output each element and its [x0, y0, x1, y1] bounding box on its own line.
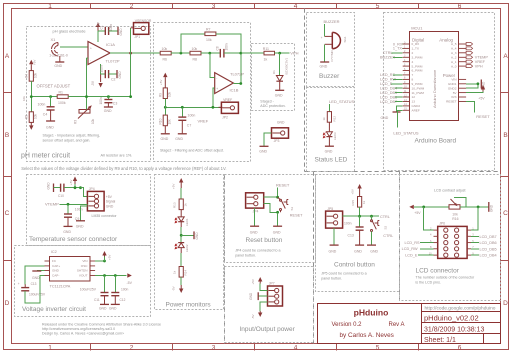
- svg-text:LCD_DB7: LCD_DB7: [480, 235, 497, 239]
- switch S1: [278, 197, 304, 217]
- wire LED2 to R14: [180, 248, 182, 253]
- JP6 right stubs: [467, 230, 471, 255]
- svg-text:C: C: [503, 210, 508, 217]
- svg-text:2: 2: [130, 3, 134, 10]
- svg-text:LCD_DB4: LCD_DB4: [380, 87, 397, 91]
- wire buzzer to gnd: [324, 44, 326, 61]
- svg-text:1k: 1k: [264, 57, 268, 61]
- svg-text:Released under the Creative Co: Released under the Creative Commons Attr…: [42, 322, 161, 326]
- svg-text:All resistor are 1%.: All resistor are 1%.: [101, 154, 133, 158]
- svg-text:100n: 100n: [75, 208, 83, 212]
- svg-text:Design by. Carlos A. Neves <c: Design by. Carlos A. Neves <caneves@gmai…: [42, 332, 124, 336]
- svg-text:JP5 could be connected to a: JP5 could be connected to a: [321, 272, 366, 276]
- ground lcd right: [489, 202, 494, 212]
- svg-text:Signal: Signal: [106, 200, 116, 204]
- +5V arrow R9: [159, 73, 168, 88]
- svg-text:S2: S2: [384, 225, 388, 229]
- svg-text:Buzzer: Buzzer: [319, 73, 340, 80]
- wire R11 to VPH: [275, 52, 290, 54]
- wire R15 to ctrl rail: [359, 207, 361, 216]
- svg-text:Input/Output power: Input/Output power: [240, 326, 296, 333]
- svg-text:GND: GND: [161, 137, 169, 141]
- svg-text:4: 4: [430, 233, 432, 237]
- wire R13 to LED1: [180, 210, 182, 217]
- svg-text:+: +: [321, 36, 323, 40]
- svg-text:Voltage inverter circuit: Voltage inverter circuit: [22, 306, 86, 313]
- capacitor C1: [98, 24, 118, 35]
- svg-text:+: +: [18, 282, 20, 286]
- svg-text:C13: C13: [348, 233, 354, 237]
- -5V arrow right: [127, 273, 133, 285]
- wire IC1B minus input: [210, 53, 215, 77]
- wire IC1B plus input: [213, 88, 215, 107]
- wire LED3 to gnd: [328, 137, 330, 146]
- svg-text:GND: GND: [277, 121, 285, 125]
- capacitor C8: [215, 43, 241, 57]
- connector JP6: [438, 222, 467, 259]
- svg-text:R5: R5: [25, 115, 29, 119]
- svg-text:GND: GND: [249, 292, 253, 300]
- dashed box stage3: [252, 44, 295, 111]
- MCU1 left pin names: [412, 42, 425, 112]
- net labels LCD right: [480, 235, 497, 258]
- svg-text:4: 4: [294, 3, 298, 10]
- svg-text:R6: R6: [163, 58, 168, 62]
- IC2 pin names: [52, 259, 60, 277]
- capacitor C14: [344, 216, 364, 253]
- ground left of C10: [47, 182, 54, 192]
- capacitor C7: [175, 107, 195, 141]
- wire JP4 pin3 to ground: [81, 206, 88, 221]
- svg-text:IC1A: IC1A: [106, 42, 115, 47]
- MCU1 left pin stubs: [403, 44, 410, 110]
- svg-text:Arduino Duemilanove: Arduino Duemilanove: [432, 69, 437, 108]
- svg-text:5: 5: [376, 345, 380, 352]
- LED LED3: [323, 132, 337, 140]
- svg-text:JP4 could be connected to a: JP4 could be connected to a: [235, 249, 280, 253]
- trimmer R16: [449, 198, 489, 221]
- svg-text:-5V: -5V: [251, 314, 255, 319]
- svg-text:7: 7: [412, 73, 414, 77]
- svg-text:9_PWM: 9_PWM: [412, 82, 423, 86]
- svg-text:Version 0.2: Version 0.2: [332, 322, 363, 328]
- frame column ticks bottom: [91, 344, 419, 351]
- svg-text:GND: GND: [63, 230, 71, 234]
- svg-text:A: A: [503, 53, 508, 60]
- svg-text:BZX55C5V1: BZX55C5V1: [285, 57, 289, 74]
- svg-text:R4: R4: [25, 74, 29, 78]
- svg-text:LCD_RW: LCD_RW: [402, 247, 418, 251]
- frame column numbers top: [48, 3, 462, 10]
- svg-text:LED3: LED3: [333, 132, 337, 140]
- svg-text:GND: GND: [118, 71, 122, 79]
- svg-text:1k: 1k: [362, 200, 366, 204]
- svg-text:LED1: LED1: [185, 218, 189, 226]
- connector X1: [49, 37, 68, 58]
- svg-text:The number outside of the conn: The number outside of the connector: [416, 276, 476, 280]
- svg-text:100uF/25V: 100uF/25V: [29, 293, 46, 297]
- svg-text:VREF: VREF: [223, 98, 232, 102]
- svg-text:3V3: 3V3: [451, 95, 457, 99]
- svg-text:GND: GND: [32, 276, 40, 280]
- svg-text:11_PWM: 11_PWM: [412, 91, 425, 95]
- svg-text:JP5: JP5: [327, 207, 333, 211]
- svg-text:LED_STATUS: LED_STATUS: [329, 99, 355, 104]
- svg-text:http://code.google.com/p/phdui: http://code.google.com/p/phduino: [425, 305, 496, 311]
- svg-text:LCD_RS: LCD_RS: [405, 241, 420, 245]
- ground mid power monitors: [181, 231, 199, 239]
- svg-text:JP3: JP3: [274, 139, 280, 143]
- svg-text:Control button: Control button: [334, 261, 375, 268]
- svg-text:LCD_DB6: LCD_DB6: [480, 241, 497, 245]
- section divider vertical control/LCD: [399, 172, 401, 301]
- frame column numbers bottom: [48, 345, 462, 352]
- svg-text:100uF/25V: 100uF/25V: [80, 287, 97, 291]
- wire X1 to IC1A: [60, 46, 88, 48]
- frame row ticks right: [501, 93, 509, 261]
- svg-text:Sheet: 1/1: Sheet: 1/1: [424, 337, 456, 344]
- svg-text:JP4: JP4: [253, 210, 259, 214]
- svg-text:JP1: JP1: [134, 35, 140, 39]
- svg-text:GND: GND: [370, 250, 378, 254]
- LED LED2 reversed: [175, 243, 189, 252]
- svg-text:+5V: +5V: [350, 189, 354, 194]
- svg-text:JP6: JP6: [439, 222, 445, 226]
- svg-text:Select the values of the volta: Select the values of the voltage divider…: [21, 166, 226, 171]
- analog net flag arrows: [466, 43, 473, 68]
- svg-text:LCD_DB7: LCD_DB7: [380, 100, 397, 104]
- svg-text:+5V: +5V: [478, 97, 485, 101]
- svg-text:A_4: A_4: [451, 47, 457, 51]
- svg-text:CTRL: CTRL: [380, 215, 390, 219]
- svg-text:is the LCD pins.: is the LCD pins.: [416, 280, 441, 284]
- svg-text:RESET: RESET: [276, 183, 290, 188]
- frame row ticks left: [3, 93, 11, 261]
- dashed box temperature sensor: [27, 175, 151, 246]
- svg-text:LCD_DB6: LCD_DB6: [380, 95, 397, 99]
- svg-text:panel button.: panel button.: [235, 253, 256, 257]
- connector JP4: [87, 187, 115, 211]
- ground under switch S2: [367, 245, 379, 254]
- connector JP4 reset: [246, 193, 264, 214]
- svg-text:Arduino Board: Arduino Board: [415, 137, 457, 144]
- svg-text:A_0: A_0: [451, 64, 457, 68]
- svg-text:6: 6: [458, 345, 462, 352]
- op-amp IC1B: [215, 72, 245, 94]
- svg-text:MCU1: MCU1: [411, 25, 423, 30]
- section divider vertical left-of-buzzer column: [304, 9, 306, 172]
- svg-text:VREF: VREF: [198, 118, 209, 123]
- wire to JP1: [130, 28, 132, 53]
- wires LCD left labels: [418, 243, 434, 256]
- svg-text:10k: 10k: [162, 47, 168, 51]
- svg-text:CAP-: CAP-: [52, 274, 59, 278]
- ground buzzer: [320, 62, 330, 68]
- resistor R12: [322, 112, 336, 123]
- jumper JP3 gnd: [259, 121, 288, 154]
- svg-text:-5V: -5V: [172, 286, 176, 291]
- RESET net wire: [466, 102, 474, 113]
- svg-text:Stage2 - Filtering and ADC off: Stage2 - Filtering and ADC offset adjust…: [160, 149, 224, 153]
- +5V arrow temp: [69, 177, 77, 188]
- svg-text:LCD_E: LCD_E: [380, 82, 393, 86]
- svg-text:-5V: -5V: [127, 281, 133, 285]
- dashed box pH meter circuit: [27, 27, 151, 162]
- svg-text:+5V: +5V: [251, 279, 255, 284]
- svg-text:pHduino: pHduino: [354, 308, 389, 318]
- zener diode D1: [272, 53, 289, 97]
- svg-text:1_TX: 1_TX: [393, 47, 403, 51]
- svg-text:CTRL: CTRL: [383, 51, 393, 55]
- svg-text:TL072P: TL072P: [230, 72, 244, 77]
- svg-text:1k: 1k: [173, 270, 177, 274]
- resistor R14: [173, 267, 188, 278]
- svg-text:R9: R9: [159, 93, 163, 97]
- svg-text:JP4: JP4: [89, 187, 95, 191]
- svg-text:GND2: GND2: [448, 86, 457, 90]
- svg-text:VSENSOR: VSENSOR: [135, 19, 152, 23]
- svg-text:Rev A: Rev A: [389, 322, 405, 328]
- svg-text:GND: GND: [354, 250, 362, 254]
- svg-text:GND: GND: [275, 94, 283, 98]
- wire to JP4 pin1: [81, 188, 88, 197]
- svg-text:GND: GND: [320, 64, 328, 68]
- wire reset label to switch: [277, 188, 279, 198]
- svg-text:JP7: JP7: [269, 282, 275, 286]
- svg-text:VOUT: VOUT: [79, 274, 88, 278]
- -5V arrow power monitors: [172, 277, 184, 293]
- svg-text:R7: R7: [206, 27, 211, 31]
- svg-text:10k: 10k: [168, 119, 172, 125]
- svg-text:panel button.: panel button.: [321, 276, 342, 280]
- resistor R15: [351, 197, 366, 208]
- svg-text:C8: C8: [215, 46, 219, 50]
- svg-text:Temperature sensor connector: Temperature sensor connector: [29, 236, 118, 243]
- capacitor C13 polarized: [18, 282, 46, 297]
- svg-text:GND: GND: [250, 231, 258, 235]
- svg-text:GND: GND: [329, 250, 337, 254]
- MCU1 power pin names: [446, 78, 457, 104]
- svg-text:VREF: VREF: [475, 60, 486, 64]
- svg-text:A_3: A_3: [451, 51, 457, 55]
- svg-text:LCD contrast adjust: LCD contrast adjust: [434, 189, 466, 193]
- svg-text:C3: C3: [113, 102, 118, 106]
- dashed box reset button: [225, 175, 316, 263]
- resistor R10: [159, 107, 172, 141]
- wire IC1B output: [233, 83, 241, 85]
- LED LED1: [175, 217, 189, 226]
- svg-text:GND: GND: [119, 28, 123, 36]
- svg-text:GND: GND: [106, 204, 114, 208]
- svg-text:2: 2: [412, 51, 414, 55]
- potentiometer R1: [31, 91, 88, 106]
- svg-text:R10: R10: [159, 118, 163, 124]
- svg-text:A_1: A_1: [451, 60, 457, 64]
- resistor R4: [25, 60, 38, 97]
- svg-text:-5V: -5V: [91, 80, 95, 86]
- svg-text:pH meter circuit: pH meter circuit: [21, 153, 70, 160]
- IC MCU1 Arduino Duemilanove body: [410, 32, 459, 121]
- junction node output IC1A: [110, 52, 160, 54]
- svg-text:+5V: +5V: [108, 255, 112, 260]
- svg-text:6_PWM: 6_PWM: [412, 69, 423, 73]
- dashed box stage2: [154, 23, 251, 162]
- wire to R12: [328, 104, 330, 112]
- svg-text:F/YTMD: F/YTMD: [330, 50, 334, 62]
- svg-text:A: A: [5, 53, 10, 60]
- svg-text:VTEMP: VTEMP: [475, 56, 489, 60]
- dashed box power monitors: [155, 175, 224, 310]
- svg-text:3_PWM: 3_PWM: [412, 56, 423, 60]
- svg-text:JP2: JP2: [222, 115, 228, 119]
- op-amp IC1A: [88, 42, 120, 65]
- svg-text:4: 4: [294, 345, 298, 352]
- svg-text:+: +: [90, 47, 92, 51]
- section divider vertical lower mid: [313, 172, 315, 344]
- svg-text:GND: GND: [259, 150, 267, 154]
- svg-text:1k: 1k: [322, 117, 326, 121]
- MCU1 left pin numbers: [404, 41, 407, 110]
- svg-text:-: -: [90, 58, 91, 62]
- svg-text:LCD connector: LCD connector: [416, 267, 460, 274]
- svg-text:B: B: [5, 132, 9, 139]
- junction R1 left: [49, 95, 52, 98]
- svg-text:Power monitors: Power monitors: [166, 301, 212, 308]
- svg-text:GND: GND: [47, 182, 51, 190]
- wire R12 to LED3: [328, 122, 330, 132]
- section divider horizontal right half: [305, 171, 501, 173]
- capacitor C10: [54, 184, 81, 198]
- svg-text:100n: 100n: [99, 97, 103, 104]
- svg-text:GND: GND: [76, 225, 84, 229]
- svg-text:3: 3: [212, 3, 216, 10]
- wires LCD right labels: [471, 236, 479, 255]
- wire switch to ground: [277, 212, 279, 226]
- svg-text:0_RX: 0_RX: [412, 42, 420, 46]
- svg-text:CTRL: CTRL: [383, 234, 393, 238]
- svg-text:LM35 connector: LM35 connector: [92, 214, 118, 218]
- MCU1 analog pin names: [451, 42, 457, 68]
- jumper JP2: [219, 98, 239, 119]
- connector JP7: [268, 282, 283, 306]
- svg-text:10k: 10k: [91, 118, 95, 124]
- svg-text:GND: GND: [104, 109, 112, 113]
- svg-text:C10: C10: [58, 194, 64, 198]
- resistor R6: [160, 47, 171, 62]
- resistor R5: [22, 96, 38, 130]
- svg-text:by Carlos A. Neves: by Carlos A. Neves: [340, 332, 394, 339]
- svg-text:0_RX: 0_RX: [393, 42, 403, 46]
- svg-text:GND: GND: [52, 269, 60, 273]
- wire rail to JP6 pin row1 left: [424, 207, 434, 230]
- +5V arrow lcd left: [409, 205, 449, 215]
- svg-text:31/8/2009 10:38:13: 31/8/2009 10:38:13: [424, 326, 484, 333]
- +5V arrow control: [350, 184, 361, 197]
- dashed box control button: [316, 175, 400, 292]
- svg-text:ADC protection.: ADC protection.: [260, 104, 285, 108]
- wire minus input IC1A: [87, 57, 89, 59]
- svg-text:R8: R8: [193, 58, 198, 62]
- svg-text:D1: D1: [272, 70, 276, 74]
- svg-text:R15: R15: [351, 200, 355, 206]
- svg-text:RESET: RESET: [446, 100, 456, 104]
- svg-text:1k: 1k: [184, 203, 188, 207]
- svg-text:C11: C11: [94, 298, 100, 302]
- -5V rail from IC1A V-: [91, 64, 103, 88]
- ground right of C2: [117, 70, 122, 79]
- IC2 TC1121CPA body: [50, 257, 91, 282]
- svg-text:R1: R1: [59, 91, 64, 95]
- svg-text:CAP+: CAP+: [52, 264, 60, 268]
- +5V rail to IC1A V+: [96, 21, 101, 42]
- feedback top wire: [181, 34, 205, 53]
- svg-text:1: 1: [48, 345, 52, 352]
- VREF rail: [165, 106, 221, 108]
- svg-text:RESET: RESET: [290, 214, 303, 218]
- svg-text:SHTDN: SHTDN: [77, 269, 88, 273]
- svg-text:5: 5: [376, 3, 380, 10]
- dashed box buzzer: [307, 13, 355, 87]
- resistor R9: [159, 88, 172, 107]
- capacitor C3: [99, 97, 117, 113]
- resistor R11: [263, 47, 275, 62]
- svg-text:D: D: [503, 300, 508, 307]
- svg-text:C12: C12: [120, 298, 126, 302]
- svg-text:Stage3 -: Stage3 -: [260, 99, 274, 103]
- svg-text:TL072P: TL072P: [106, 59, 120, 64]
- MCU1 right pin stubs: [459, 44, 466, 102]
- svg-text:-: -: [216, 77, 217, 81]
- svg-text:pHduino_v02.02: pHduino_v02.02: [424, 313, 479, 322]
- svg-text:+5V: +5V: [69, 180, 73, 185]
- svg-text:C13: C13: [31, 282, 37, 286]
- svg-text:10k: 10k: [452, 212, 458, 216]
- svg-text:GND: GND: [109, 307, 117, 311]
- svg-text:C1: C1: [100, 25, 104, 29]
- svg-text:3: 3: [212, 345, 216, 352]
- wire buzzer top: [324, 24, 326, 37]
- svg-text:12: 12: [412, 95, 416, 99]
- frame row letters left: [5, 53, 10, 307]
- wire CAP+ to C13: [25, 266, 44, 284]
- wire JP5 to switch and CTRL: [343, 215, 379, 217]
- dashed box arduino board: [384, 13, 495, 171]
- svg-text:1_TX: 1_TX: [412, 47, 419, 51]
- svg-text:LCD_E: LCD_E: [405, 254, 418, 258]
- svg-text:10k: 10k: [168, 91, 172, 97]
- capacitor C12: [109, 276, 129, 311]
- svg-text:LCD_DB5: LCD_DB5: [380, 91, 397, 95]
- capacitor C2: [100, 65, 117, 81]
- resistor R13: [173, 199, 188, 210]
- +5V arrow io power: [251, 277, 268, 291]
- trimmer R3: [74, 58, 96, 124]
- svg-text:sensor offset adjust, and gain: sensor offset adjust, and gain.: [43, 138, 91, 142]
- svg-text:100k: 100k: [58, 101, 66, 105]
- svg-text:10k: 10k: [34, 113, 38, 119]
- buzzer SG1: [321, 32, 347, 61]
- svg-text:100n: 100n: [121, 287, 129, 291]
- JP6 pin numbers: [429, 227, 475, 256]
- svg-text:100n: 100n: [188, 114, 196, 118]
- dashed box status LED: [307, 88, 355, 172]
- svg-text:+: +: [216, 87, 218, 91]
- ground symbol right of MCU1: [481, 80, 485, 89]
- IC2 pin stubs: [45, 261, 96, 276]
- svg-text:VTEMP: VTEMP: [45, 202, 59, 207]
- +5V arrow right of MCU1: [466, 92, 483, 93]
- svg-text:2: 2: [130, 345, 134, 352]
